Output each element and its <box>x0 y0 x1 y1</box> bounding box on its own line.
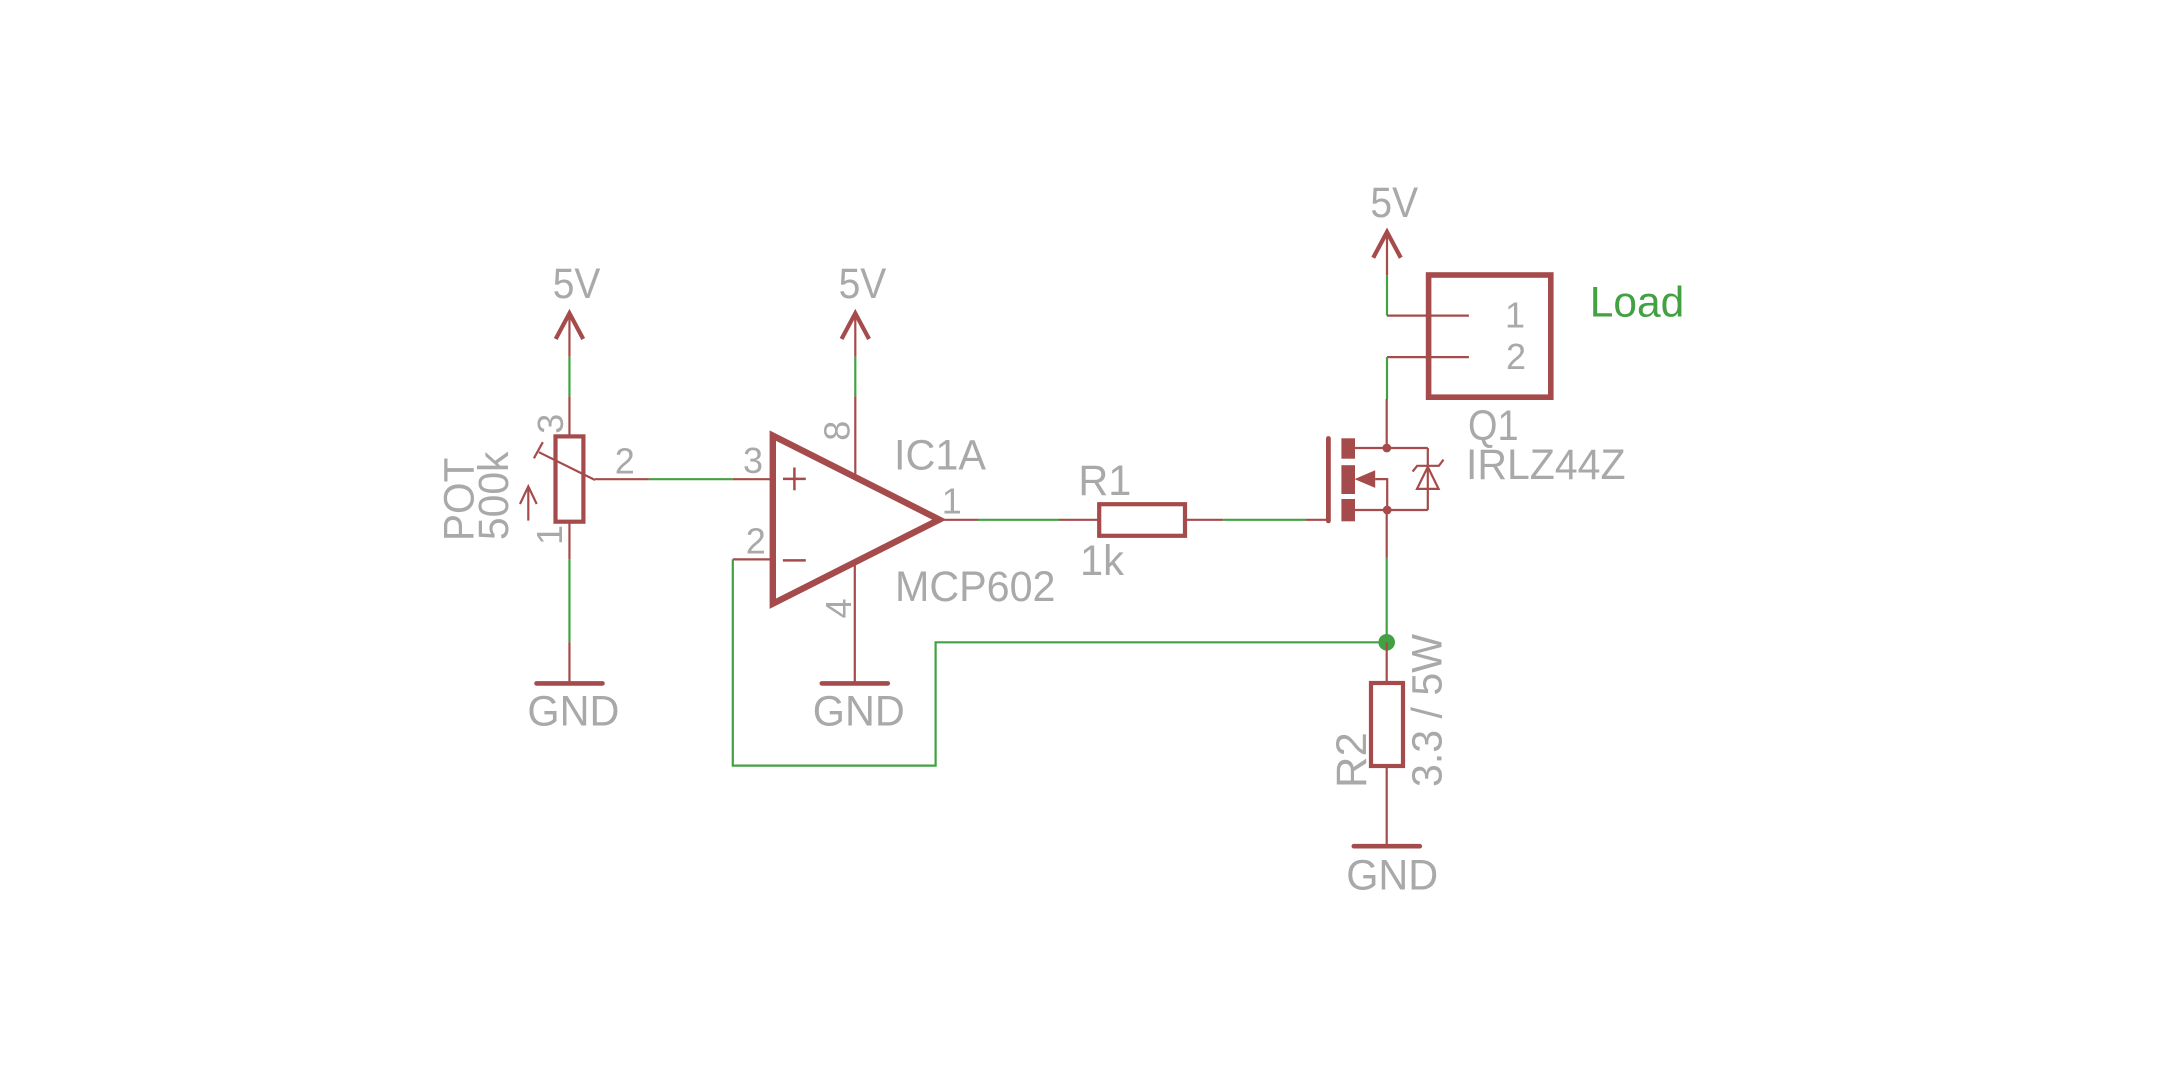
wire connector pin2 down to drain <box>1386 357 1388 399</box>
svg-text:GND: GND <box>527 687 619 735</box>
svg-text:3.3 / 5W: 3.3 / 5W <box>1404 634 1452 787</box>
pin 1 stub of op-amp output <box>939 519 978 521</box>
wire R1 to MOSFET gate <box>1223 519 1306 521</box>
svg-text:1k: 1k <box>1080 537 1124 585</box>
pin 4 stub of op-amp <box>854 560 856 683</box>
ground symbol (POT branch) <box>537 681 603 686</box>
connector pin 2 line <box>1387 356 1469 358</box>
svg-text:2: 2 <box>746 521 766 562</box>
svg-text:Load: Load <box>1590 278 1685 326</box>
gate pin stub of Q1 <box>1306 519 1327 521</box>
resistor R2 bottom lead <box>1386 766 1388 846</box>
supply symbol 5V (POT branch) <box>556 313 584 356</box>
supply symbol 5V (load branch) <box>1373 232 1401 275</box>
svg-text:1: 1 <box>529 525 570 545</box>
transistor Q1 drain connection <box>1355 447 1428 449</box>
wire 5V to op-amp pin8 <box>854 357 856 397</box>
connector pin 1 line <box>1387 315 1469 317</box>
ground symbol (op-amp branch) <box>822 681 888 686</box>
wire 5V to POT pin3 <box>568 357 570 397</box>
drain pin stub of Q1 <box>1386 399 1388 448</box>
ground symbol (R2 branch) <box>1354 844 1420 849</box>
wire 5V to connector pin1 <box>1386 275 1388 315</box>
svg-text:8: 8 <box>817 421 858 441</box>
potentiometer wiper <box>534 442 595 480</box>
svg-text:IC1A: IC1A <box>894 432 986 480</box>
svg-text:GND: GND <box>813 687 905 735</box>
svg-text:2: 2 <box>615 441 635 482</box>
node sense junction <box>1378 634 1395 651</box>
svg-text:2: 2 <box>1506 336 1526 377</box>
transistor Q1 source connection <box>1355 509 1428 511</box>
svg-text:GND: GND <box>1346 851 1438 899</box>
svg-text:3: 3 <box>530 414 571 434</box>
svg-text:4: 4 <box>818 598 859 618</box>
connector Load box <box>1429 275 1551 397</box>
pin 3 stub of op-amp <box>733 478 770 480</box>
transistor Q1 channel segments <box>1341 438 1355 521</box>
svg-text:500k: 500k <box>470 451 518 540</box>
svg-text:5V: 5V <box>839 260 887 308</box>
svg-text:R1: R1 <box>1078 457 1131 505</box>
supply symbol 5V (op-amp branch) <box>842 313 870 356</box>
pin 2 stub of op-amp <box>733 558 770 560</box>
svg-text:IRLZ44Z: IRLZ44Z <box>1466 441 1626 489</box>
junction dot drain <box>1382 444 1391 453</box>
op-amp plus mark <box>783 468 806 491</box>
potentiometer POT 500k body <box>556 436 584 521</box>
wire POT pin1 to GND <box>568 522 570 684</box>
svg-text:1: 1 <box>1505 294 1525 335</box>
resistor R2 top lead <box>1386 642 1388 683</box>
op-amp IC1A triangle <box>773 436 940 604</box>
body diode of Q1 <box>1413 448 1444 510</box>
resistor R1 right lead <box>1185 519 1223 521</box>
pin 3 stub of POT <box>568 396 570 436</box>
potentiometer variability arrow <box>520 486 537 520</box>
transistor Q1 gate bar <box>1326 439 1331 521</box>
resistor R2 body <box>1371 683 1403 766</box>
svg-text:R2: R2 <box>1328 732 1376 788</box>
transistor Q1 bulk link <box>1375 479 1387 510</box>
resistor R1 left lead <box>1059 519 1099 521</box>
wire op-amp output to R1 <box>978 519 1059 521</box>
resistor R1 body <box>1099 504 1185 536</box>
svg-text:3: 3 <box>743 440 763 481</box>
svg-text:5V: 5V <box>553 260 601 308</box>
source pin wire of Q1 down <box>1386 510 1388 558</box>
transistor Q1 bulk arrow <box>1355 470 1376 488</box>
wire POT wiper to op-amp +in <box>649 478 733 480</box>
svg-text:1: 1 <box>942 480 962 521</box>
wire source to sense node <box>1386 558 1388 643</box>
svg-text:MCP602: MCP602 <box>895 563 1056 611</box>
feedback wire from op-amp -in to sense node <box>733 559 1387 765</box>
op-amp minus mark <box>783 559 806 562</box>
pin 8 stub of op-amp <box>854 396 856 480</box>
svg-text:5V: 5V <box>1370 179 1418 227</box>
junction dot source <box>1383 506 1392 515</box>
pin 2 stub of POT (wiper out) <box>595 478 649 480</box>
